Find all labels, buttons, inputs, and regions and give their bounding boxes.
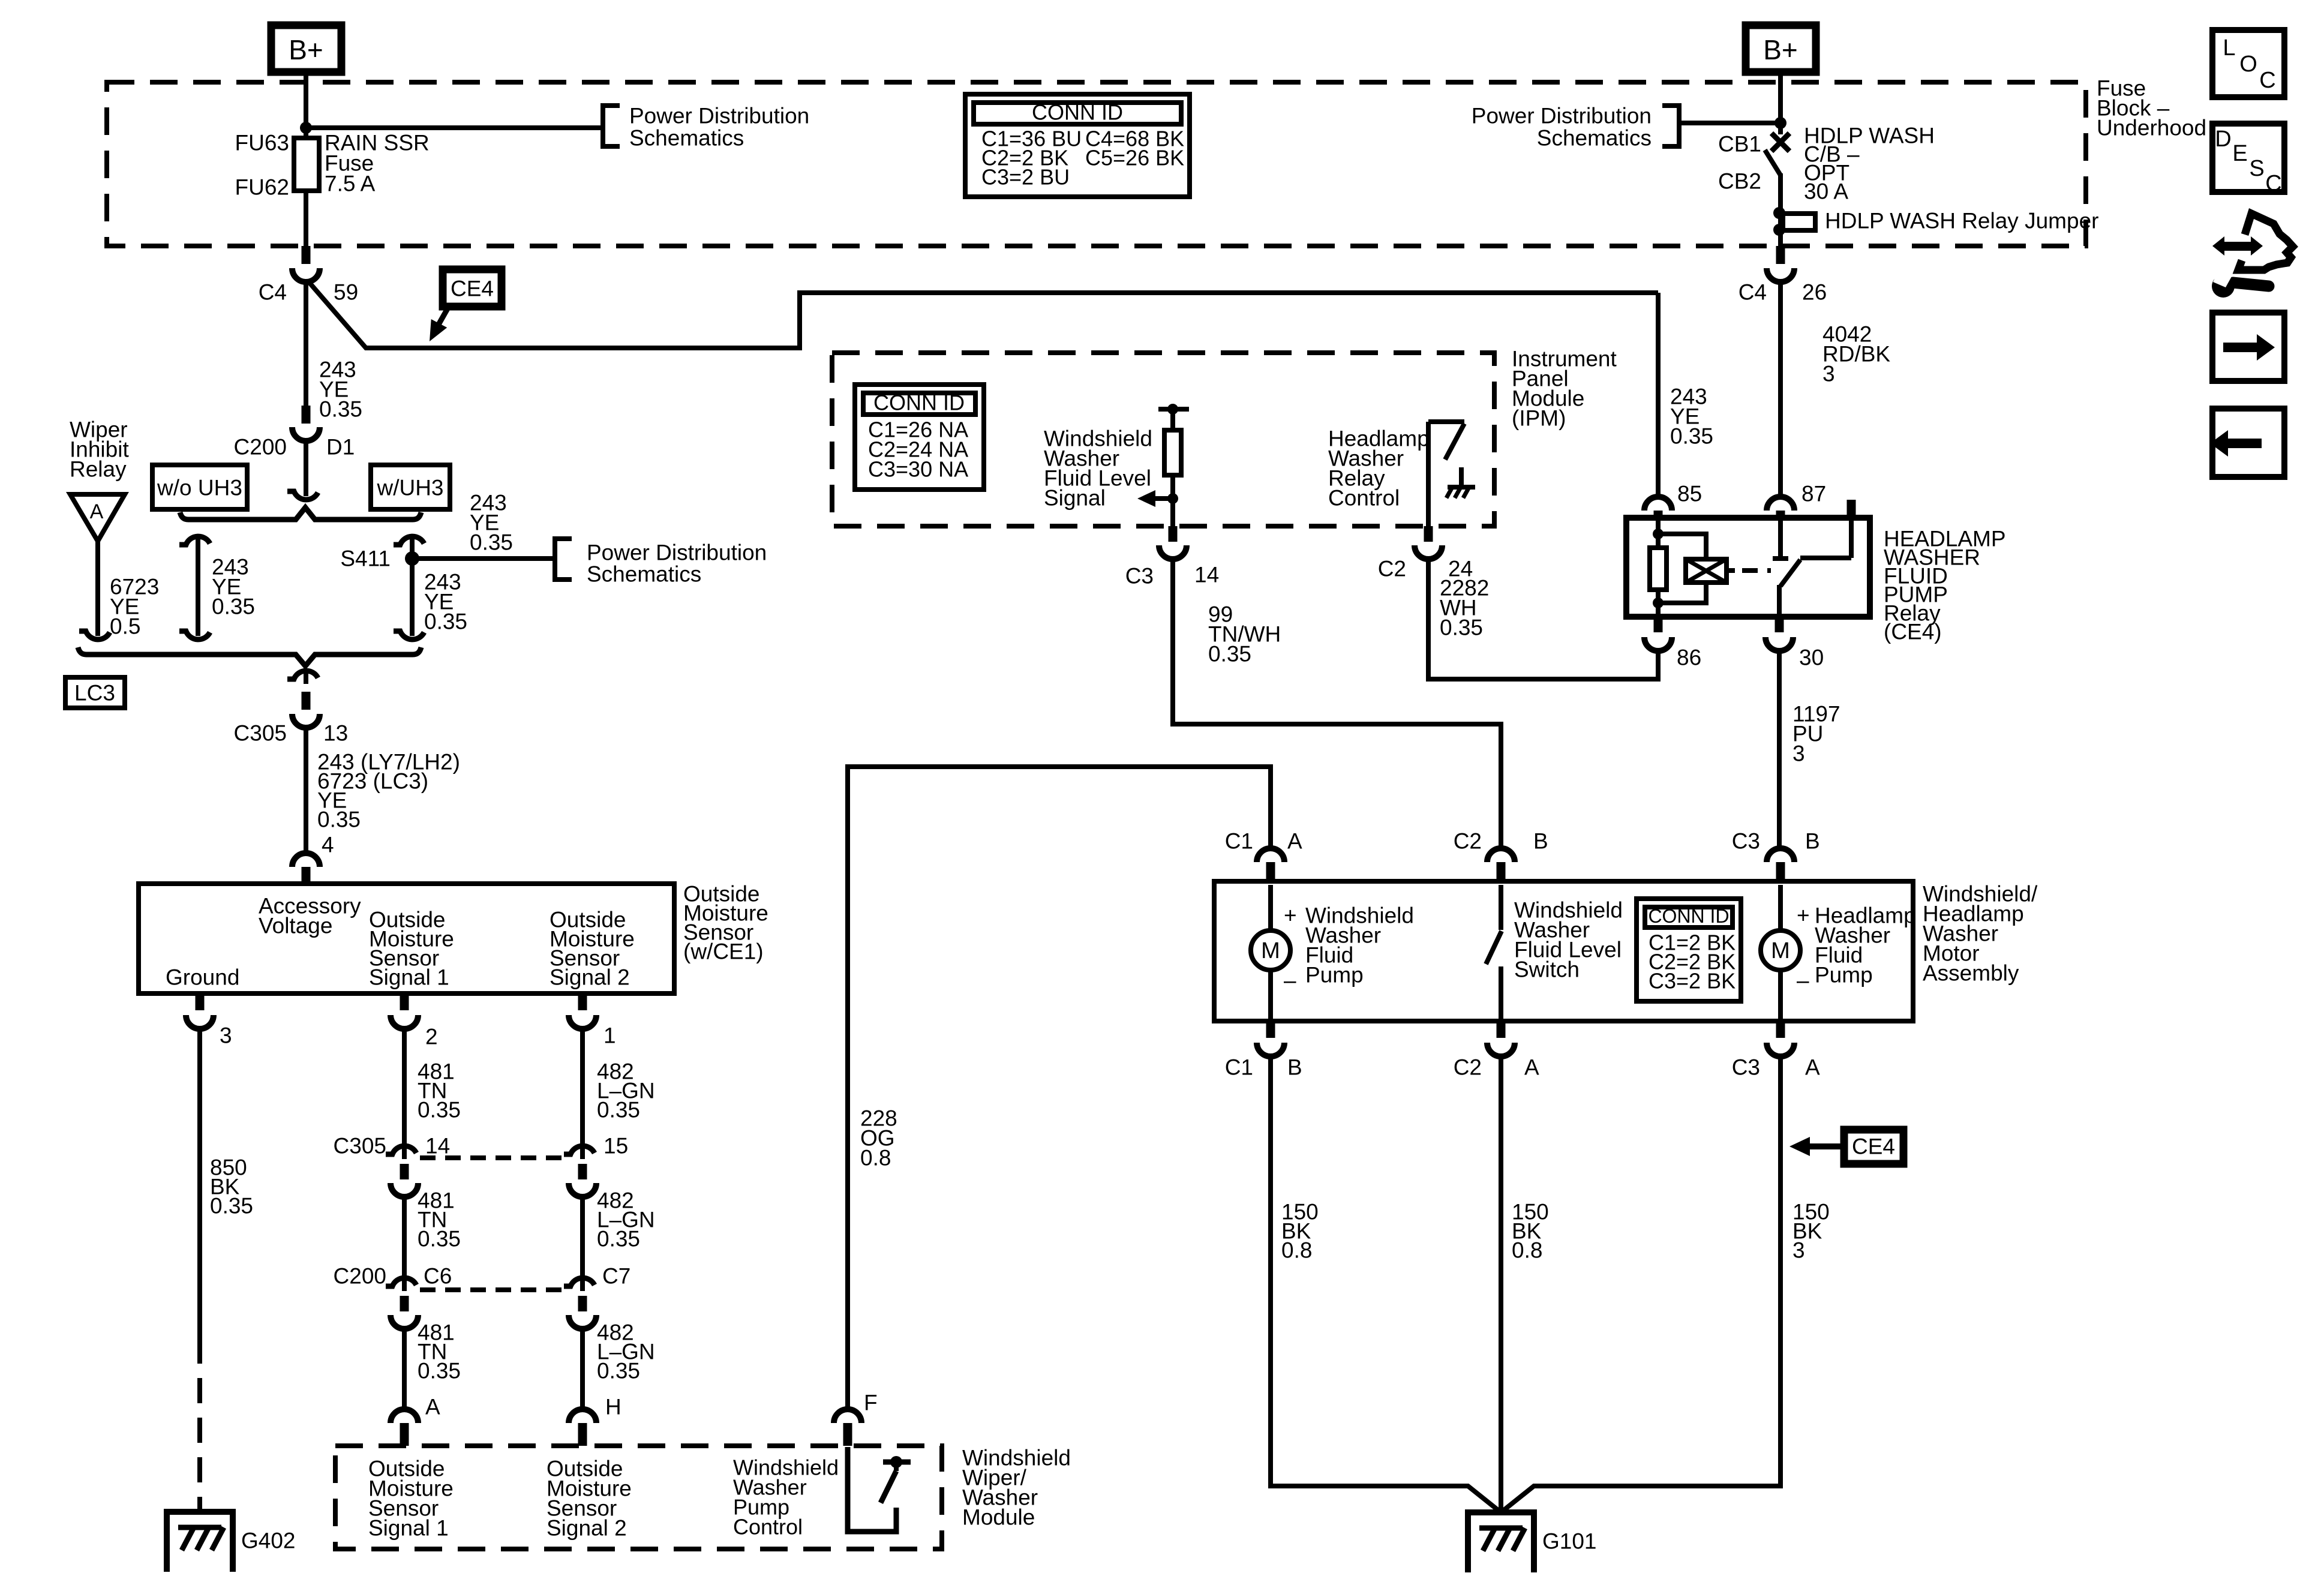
svg-text:S411: S411 <box>340 547 391 571</box>
connector C4 pin 26 <box>1776 246 1785 264</box>
svg-text:G101: G101 <box>1542 1529 1597 1554</box>
svg-text:FU62: FU62 <box>235 175 289 200</box>
svg-text:0.35: 0.35 <box>597 1098 640 1122</box>
w/UH3 label box <box>371 465 450 509</box>
svg-text:CE4: CE4 <box>451 277 494 301</box>
next-page arrow icon box <box>2212 313 2284 381</box>
svg-text:C305: C305 <box>334 1134 386 1158</box>
svg-text:Power Distribution: Power Distribution <box>629 104 809 128</box>
wire 243/6723 YE to sensor pin 4 <box>304 725 308 854</box>
svg-text:A: A <box>1524 1055 1539 1080</box>
wire S411 to power distribution bracket <box>412 556 555 561</box>
LOC icon box <box>2212 30 2284 97</box>
svg-text:C305: C305 <box>234 721 287 746</box>
svg-text:F: F <box>864 1391 878 1415</box>
windshield/headlamp washer motor assembly box <box>1214 881 1913 1021</box>
wire down to relay 85 <box>1656 293 1661 498</box>
svg-text:0.5: 0.5 <box>110 614 140 639</box>
diagnostic animal icon <box>2212 236 2224 256</box>
wire B+ right down <box>1778 72 1783 134</box>
svg-text:Signal 2: Signal 2 <box>550 965 630 990</box>
svg-text:4: 4 <box>322 833 334 857</box>
wire B+ left down to fuse <box>304 72 308 138</box>
relay pin 30 connector <box>1775 617 1784 632</box>
svg-text:0.35: 0.35 <box>597 1359 640 1383</box>
node junction right B+ feed <box>1774 117 1786 129</box>
svg-text:3: 3 <box>1792 742 1805 766</box>
wire from C4-59 to relay pin 85 (with step) <box>308 281 1658 348</box>
svg-text:Schematics: Schematics <box>629 126 744 151</box>
branch w/UH3 with splice S411 <box>410 539 415 550</box>
outside moisture sensor box <box>139 884 674 993</box>
svg-text:A: A <box>1287 829 1302 854</box>
motor assembly pin C3-B connector <box>1767 848 1794 862</box>
motor assembly pin C2-B connector <box>1487 848 1515 862</box>
branch w/o UH3 243 YE 0.35 <box>196 539 200 550</box>
svg-text:CE4: CE4 <box>1852 1134 1895 1159</box>
svg-text:15: 15 <box>603 1134 628 1158</box>
svg-text:14: 14 <box>425 1134 450 1158</box>
motor assembly bottom pin C3-A <box>1776 1021 1785 1038</box>
svg-text:Assembly: Assembly <box>1923 961 2019 986</box>
svg-text:Power Distribution: Power Distribution <box>587 541 767 565</box>
svg-text:3: 3 <box>220 1023 232 1048</box>
svg-text:B+: B+ <box>289 34 323 65</box>
wire junction to power distribution bracket (right) <box>1679 121 1780 125</box>
svg-text:Pump: Pump <box>1305 963 1364 987</box>
module pin A connector <box>391 1409 418 1423</box>
svg-text:CB1: CB1 <box>1718 132 1761 157</box>
motor assembly pin C1-A connector <box>1257 848 1284 862</box>
svg-text:0.35: 0.35 <box>1670 424 1713 449</box>
wire 228 OG 0.8 from module F to motor C1-A <box>848 767 1271 1411</box>
svg-text:Switch: Switch <box>1514 957 1580 982</box>
relay pin 87 connector <box>1767 497 1794 511</box>
svg-text:2: 2 <box>425 1025 438 1049</box>
svg-text:0.8: 0.8 <box>860 1146 891 1170</box>
upper harness brace <box>180 508 421 520</box>
svg-text:Signal 1: Signal 1 <box>369 965 449 990</box>
svg-text:Underhood: Underhood <box>2097 116 2206 140</box>
wire 482 L-GN 0.35 (C200 to module pin H) <box>580 1326 585 1411</box>
wire 850 BK 0.35 to G402 <box>197 1027 202 1338</box>
wire junction to power distribution bracket <box>306 125 603 130</box>
svg-text:26: 26 <box>1802 280 1827 305</box>
svg-text:(w/CE1): (w/CE1) <box>683 939 764 964</box>
relay switch <box>1778 518 1783 559</box>
washer pump control switch <box>848 1447 896 1532</box>
svg-text:C: C <box>2265 171 2281 196</box>
svg-text:C7: C7 <box>602 1264 630 1289</box>
node junction on left B+ feed <box>300 122 312 134</box>
svg-text:Control: Control <box>1328 486 1400 511</box>
svg-text:w/o UH3: w/o UH3 <box>157 476 242 500</box>
wire 482 L-GN 0.35 (sensor to C305) <box>580 1027 585 1147</box>
svg-text:+: + <box>1797 903 1810 928</box>
svg-text:3: 3 <box>1822 362 1835 386</box>
svg-text:M: M <box>1771 938 1790 963</box>
svg-text:30: 30 <box>1799 646 1824 670</box>
svg-text:C4: C4 <box>259 280 287 305</box>
svg-text:Control: Control <box>733 1515 803 1539</box>
svg-text:(CE4): (CE4) <box>1884 620 1942 644</box>
IPM connector C3 pin 14 <box>1169 526 1178 542</box>
circuit breaker CB1/CB2 HDLP WASH 30A <box>1771 133 1789 151</box>
svg-text:C200: C200 <box>334 1264 386 1289</box>
svg-text:C2: C2 <box>1378 557 1406 581</box>
connector C305 pin 13 <box>304 673 308 684</box>
svg-text:3: 3 <box>1792 1238 1805 1263</box>
wire 482 L-GN 0.35 (C305 to C200) <box>580 1194 585 1278</box>
wire 4042 RD/BK 3 to relay 87 <box>1778 280 1783 498</box>
motor assembly bottom pin C1-B <box>1266 1021 1275 1038</box>
svg-text:+: + <box>1284 903 1297 928</box>
wire 99 TN/WH 0.35 from C3-14 to motor C2-B <box>1173 557 1501 849</box>
splice S411 <box>405 551 419 566</box>
instrument panel module dashed box <box>832 353 1494 526</box>
svg-text:Signal 2: Signal 2 <box>547 1516 627 1541</box>
svg-text:C200: C200 <box>234 435 287 460</box>
connector pin 4 into sensor <box>292 853 320 867</box>
svg-text:Module: Module <box>962 1505 1035 1530</box>
svg-text:0.35: 0.35 <box>418 1098 461 1122</box>
svg-text:0.8: 0.8 <box>1281 1238 1312 1263</box>
wire 481 TN 0.35 (sensor to C305) <box>402 1027 407 1147</box>
wire 1197 PU 3 from relay 30 to motor C3-B <box>1777 649 1782 849</box>
svg-text:L: L <box>2223 35 2235 61</box>
label CE4 (bottom) with arrow <box>1844 1130 1903 1164</box>
windshield washer fluid level switch <box>1499 885 1503 930</box>
wire CB to jumper <box>1778 173 1783 247</box>
svg-text:Ground: Ground <box>166 965 239 990</box>
svg-text:Relay: Relay <box>70 457 127 482</box>
sensor pin 3 ground <box>196 993 205 1010</box>
svg-text:86: 86 <box>1677 646 1701 670</box>
svg-text:C3=2 BU: C3=2 BU <box>981 165 1070 190</box>
svg-text:0.35: 0.35 <box>470 530 513 555</box>
module pin H connector <box>569 1409 596 1423</box>
svg-text:D: D <box>2215 127 2231 152</box>
svg-text:0.35: 0.35 <box>418 1227 461 1251</box>
relay pin 86 connector <box>1654 617 1663 632</box>
wire 481 TN 0.35 (C200 to module pin A) <box>402 1326 407 1411</box>
ground G402 <box>167 1512 233 1572</box>
relay pin 85 connector <box>1644 497 1672 511</box>
wire 6723 YE 0.5 from relay <box>95 541 100 631</box>
wire 150 BK 3 (headlamp pump to G101) <box>1501 1054 1780 1512</box>
svg-text:C2: C2 <box>1454 829 1482 854</box>
svg-text:w/UH3: w/UH3 <box>376 476 443 500</box>
headlamp washer fluid pump motor <box>1778 885 1783 930</box>
svg-text:0.35: 0.35 <box>424 610 467 634</box>
svg-text:–: – <box>1284 968 1296 993</box>
prev-page arrow icon box <box>2212 409 2284 477</box>
svg-text:87: 87 <box>1801 482 1826 506</box>
svg-text:B+: B+ <box>1763 34 1798 65</box>
power distribution schematics bracket (middle) <box>555 539 572 580</box>
wire relay control to C2 pin 24 <box>1426 422 1431 526</box>
svg-text:1: 1 <box>603 1023 616 1048</box>
svg-text:0.35: 0.35 <box>418 1359 461 1383</box>
relay linkage dashes <box>1742 568 1771 573</box>
fuse FU63/FU62 RAIN SSR 7.5A <box>294 138 319 191</box>
windshield wiper/washer module dashed box <box>335 1446 942 1549</box>
CE4 arrow <box>439 307 449 325</box>
wire 243 YE 0.35 down to C200 <box>304 280 308 407</box>
sensor pin 2 signal 1 <box>400 993 409 1010</box>
label CE4 (top) <box>443 269 502 307</box>
svg-text:–: – <box>1797 968 1809 993</box>
svg-text:C3: C3 <box>1732 1055 1760 1080</box>
relay coil valve box <box>1686 559 1727 583</box>
DESC icon box <box>2212 124 2284 192</box>
w/o UH3 label box <box>152 465 247 509</box>
svg-text:D1: D1 <box>326 435 355 460</box>
svg-text:Schematics: Schematics <box>1537 126 1652 151</box>
harness dashes C200 <box>420 1287 567 1292</box>
svg-text:0.35: 0.35 <box>212 595 255 619</box>
lower harness brace <box>78 647 421 666</box>
svg-text:B: B <box>1533 829 1548 854</box>
connector C4 pin 59 <box>302 246 311 264</box>
svg-text:Voltage: Voltage <box>259 914 332 938</box>
LC3 label box <box>65 677 125 708</box>
svg-text:0.35: 0.35 <box>319 397 362 422</box>
svg-text:C4: C4 <box>1739 280 1767 305</box>
svg-text:S: S <box>2249 156 2264 181</box>
svg-text:A: A <box>425 1395 440 1419</box>
svg-text:CONN ID: CONN ID <box>873 391 965 415</box>
svg-text:0.35: 0.35 <box>317 807 361 832</box>
svg-text:59: 59 <box>334 280 358 305</box>
relay control driver symbol <box>1428 419 1464 424</box>
svg-text:H: H <box>605 1395 621 1419</box>
svg-text:HDLP WASH Relay Jumper: HDLP WASH Relay Jumper <box>1825 209 2098 233</box>
power symbol B+ (right) <box>1746 25 1816 72</box>
svg-text:LC3: LC3 <box>74 681 115 706</box>
wire 150 BK 0.8 (windshield pump to G101) <box>1271 1054 1501 1512</box>
svg-text:A: A <box>90 500 104 523</box>
relay coil <box>1653 529 1664 539</box>
svg-text:0.8: 0.8 <box>1512 1238 1542 1263</box>
svg-text:0.35: 0.35 <box>1208 642 1251 667</box>
fuse block - underhood dashed box <box>107 82 2086 246</box>
svg-text:85: 85 <box>1677 482 1702 506</box>
svg-text:C5=26 BK: C5=26 BK <box>1085 146 1184 170</box>
windshield washer fluid pump motor <box>1268 885 1273 930</box>
svg-text:14: 14 <box>1194 563 1219 587</box>
connector C200 D1 <box>302 406 311 424</box>
sensor pin 1 signal 2 <box>578 993 587 1010</box>
HDLP WASH relay jumper <box>1773 207 1785 219</box>
wire fuse to connector C4 pin 59 <box>304 191 308 247</box>
CONN ID table (IPM) <box>855 385 984 490</box>
svg-text:CONN ID: CONN ID <box>1648 905 1729 927</box>
svg-text:C3: C3 <box>1732 829 1760 854</box>
svg-text:Signal: Signal <box>1044 486 1106 511</box>
svg-text:7.5 A: 7.5 A <box>325 172 376 196</box>
signal direction arrow <box>1167 493 1178 504</box>
svg-text:C: C <box>2259 68 2275 93</box>
svg-text:FU63: FU63 <box>235 131 289 155</box>
svg-text:30 A: 30 A <box>1804 179 1848 204</box>
power distribution schematics bracket (left) <box>603 106 620 146</box>
svg-text:M: M <box>1261 938 1280 963</box>
wire 150 BK 0.8 (level switch to G101) <box>1499 1054 1503 1512</box>
svg-text:G402: G402 <box>241 1529 296 1553</box>
svg-text:B: B <box>1805 829 1820 854</box>
svg-text:A: A <box>1805 1055 1820 1080</box>
svg-text:C3=30 NA: C3=30 NA <box>868 457 968 482</box>
ground G101 <box>1468 1512 1534 1572</box>
svg-text:CONN ID: CONN ID <box>1032 100 1123 125</box>
svg-text:Signal 1: Signal 1 <box>368 1516 449 1541</box>
svg-text:E: E <box>2232 141 2247 166</box>
harness dashes C305 <box>420 1155 567 1160</box>
motor assembly bottom pin C2-A <box>1497 1021 1506 1038</box>
svg-text:(IPM): (IPM) <box>1512 406 1566 431</box>
svg-text:C3: C3 <box>1125 564 1154 589</box>
IPM connector C2 pin 24 <box>1424 526 1433 542</box>
power symbol B+ (left) <box>271 25 341 72</box>
svg-text:Schematics: Schematics <box>587 562 701 587</box>
svg-text:13: 13 <box>323 721 348 746</box>
fluid level signal sense resistor <box>1158 407 1189 412</box>
svg-text:CB2: CB2 <box>1718 169 1761 194</box>
wire 481 TN 0.35 (C305 to C200) <box>402 1194 407 1278</box>
svg-text:0.35: 0.35 <box>597 1227 640 1251</box>
power distribution schematics bracket (right) <box>1662 106 1679 146</box>
svg-text:O: O <box>2239 52 2257 77</box>
svg-text:Power Distribution: Power Distribution <box>1472 104 1652 128</box>
CONN ID table (motor assembly) <box>1637 899 1741 1001</box>
svg-text:0.35: 0.35 <box>210 1194 253 1218</box>
headlamp washer fluid pump relay box <box>1626 518 1870 617</box>
svg-text:C1: C1 <box>1225 829 1253 854</box>
svg-text:C6: C6 <box>424 1264 452 1289</box>
wrench icon <box>2233 283 2269 286</box>
wire 2282 WH 0.35 from C2-24 to relay 86 <box>1428 557 1658 679</box>
wiper inhibit relay triangle A <box>70 494 125 541</box>
svg-text:B: B <box>1287 1055 1302 1080</box>
svg-text:Pump: Pump <box>1815 963 1873 987</box>
svg-text:C2: C2 <box>1454 1055 1482 1080</box>
svg-text:C1: C1 <box>1225 1055 1253 1080</box>
svg-text:0.35: 0.35 <box>1440 616 1483 640</box>
CONN ID table (fuse block) <box>965 94 1190 197</box>
svg-text:C3=2 BK: C3=2 BK <box>1649 969 1736 993</box>
